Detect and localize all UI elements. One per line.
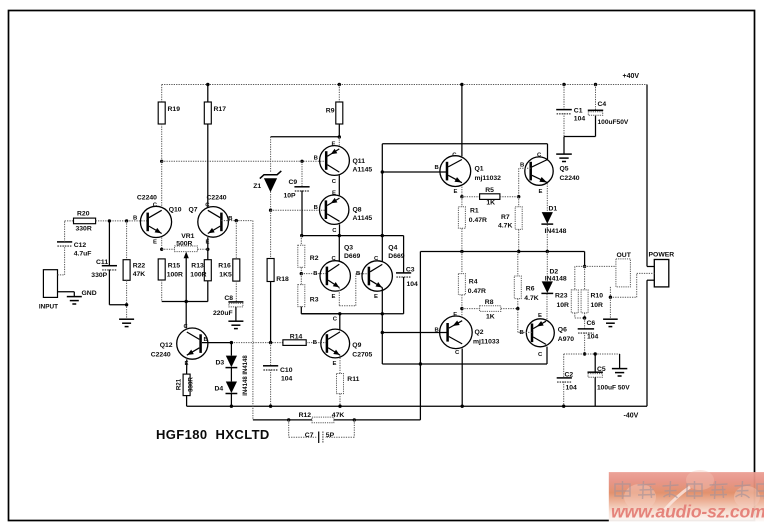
svg-text:R9: R9 — [326, 108, 335, 115]
svg-text:D669: D669 — [344, 253, 360, 260]
svg-text:C: C — [538, 352, 543, 358]
svg-text:-40V: -40V — [624, 413, 639, 420]
wire: R4 top lead — [461, 252, 463, 274]
svg-text:R1: R1 — [470, 208, 479, 215]
wire: R23 bottom jog — [575, 313, 585, 318]
wire: VAS node line — [301, 313, 403, 315]
ground (R22/C11) — [119, 319, 134, 326]
junction OUT-return/ground — [609, 296, 612, 299]
wire: out-line corner to OUT node — [584, 252, 586, 267]
svg-text:R12: R12 — [299, 412, 312, 419]
wire: D4 to rail — [230, 394, 232, 407]
junction VAS/Q4.E — [381, 312, 384, 315]
svg-text:R13: R13 — [191, 263, 204, 270]
svg-text:10P: 10P — [284, 193, 297, 200]
wire: rail to R9 — [338, 85, 340, 103]
svg-text:www.audio-sz.com: www.audio-sz.com — [611, 502, 764, 522]
wire: Q4 emitter — [381, 288, 383, 314]
capacitor C10 — [263, 366, 278, 370]
wire: R10 top lead — [584, 266, 586, 290]
wire: -40V rail — [187, 405, 647, 407]
svg-text:C: C — [455, 350, 460, 356]
junction out-line/R7-R6 — [517, 250, 520, 253]
svg-text:B: B — [314, 205, 318, 211]
wire: C2 branch — [563, 354, 565, 378]
svg-text:VR1: VR1 — [181, 233, 194, 240]
transistor Q11 (A1145 PNP) — [314, 141, 350, 185]
svg-text:C6: C6 — [587, 320, 596, 327]
wire: Q10 emitter — [161, 238, 163, 250]
svg-text:C2240: C2240 — [151, 351, 171, 358]
svg-text:1K5: 1K5 — [219, 271, 232, 278]
resistor R6 — [514, 276, 521, 299]
svg-text:R19: R19 — [168, 106, 181, 113]
svg-text:E: E — [332, 294, 336, 300]
wire: C3 to VAS node — [403, 277, 405, 314]
wire: Q3 base line — [301, 273, 327, 275]
wire: Q11 emitter — [338, 137, 340, 147]
svg-text:104: 104 — [407, 281, 419, 288]
svg-text:47K: 47K — [133, 271, 146, 278]
resistor R22 — [123, 260, 130, 281]
wire: main base line to R14 — [231, 342, 283, 344]
svg-text:C9: C9 — [289, 179, 298, 186]
resistor R17 — [204, 102, 211, 124]
capacitor C12 — [57, 242, 72, 246]
svg-text:100uF 50V: 100uF 50V — [597, 385, 630, 392]
svg-text:C2240: C2240 — [560, 175, 580, 182]
wire: Q3.E to Q4.B zigzag — [339, 274, 369, 306]
wire: C1 bottom lead — [563, 113, 565, 136]
svg-text:IN4148: IN4148 — [545, 276, 567, 283]
resistor R5 — [480, 194, 500, 200]
svg-text:100R: 100R — [167, 271, 183, 278]
wire: R15 bottom — [161, 280, 163, 302]
svg-text:104: 104 — [574, 115, 586, 122]
svg-text:C: C — [537, 153, 542, 159]
wire: Q1 emitter — [461, 187, 463, 197]
svg-text:C3: C3 — [406, 267, 415, 274]
wire: R8 left lead — [462, 308, 480, 310]
transistor Q3 (D669) — [313, 256, 350, 300]
svg-text:D4: D4 — [215, 386, 224, 393]
wire: R6 top lead — [517, 252, 519, 277]
wire: R17 to Q7 collector — [207, 124, 209, 207]
wire: R5 right lead — [500, 196, 519, 198]
junction C6/ground line — [583, 352, 586, 355]
zener Z1 — [260, 171, 282, 192]
wire: Q12 base line solid — [202, 342, 231, 344]
junction R8/R6/Q6.B — [516, 307, 519, 310]
wire: feedback from Q7 base — [252, 221, 254, 420]
wire: R13 bottom — [207, 281, 209, 302]
resistor R23 — [571, 290, 578, 313]
junction Q2.C/-40V — [461, 405, 464, 408]
svg-text:B: B — [356, 271, 360, 277]
wire: +40V feed to POWER — [647, 85, 654, 267]
junction C9 top — [300, 160, 303, 163]
wire: C5 branch — [594, 354, 596, 372]
junction tail/VR1 wiper — [185, 300, 188, 303]
junction R2/R3/Q3.B — [300, 272, 303, 275]
svg-text:C11: C11 — [96, 259, 108, 266]
svg-text:+40V: +40V — [623, 73, 640, 80]
resistor VR1 (trimmer) — [175, 246, 198, 252]
svg-text:100R: 100R — [190, 271, 206, 278]
svg-text:IN4148 IN4148: IN4148 IN4148 — [243, 355, 249, 396]
svg-text:R15: R15 — [168, 263, 181, 270]
junction Q7.B/R16 — [235, 219, 238, 222]
wire: ground stem (bypass) — [563, 137, 565, 154]
svg-text:R11: R11 — [347, 376, 359, 383]
transistor Q8 (A1145 PNP) — [314, 191, 349, 234]
junction output/feedback — [419, 362, 422, 365]
svg-text:100uF50V: 100uF50V — [598, 119, 629, 126]
wire: C2 to -40V rail — [563, 382, 565, 407]
wire: C11 bottom lead — [109, 270, 126, 305]
svg-text:47K: 47K — [332, 412, 345, 419]
svg-text:R10: R10 — [591, 293, 604, 300]
wire: Q2 collector to -40V — [461, 349, 463, 407]
wire: -40V feed from POWER — [647, 280, 654, 406]
svg-text:B: B — [435, 327, 439, 333]
transistor Q7 (C2240) — [198, 202, 233, 245]
junction Q1 base tee — [381, 170, 384, 173]
junction Q1.E/R5/R1 — [460, 195, 463, 198]
svg-text:330R: 330R — [188, 377, 195, 392]
svg-text:330R: 330R — [76, 226, 92, 233]
svg-text:C: C — [153, 202, 158, 208]
junction rail/Q1.C — [460, 83, 463, 86]
wire: R10 bottom lead — [584, 313, 586, 318]
diode D4 — [226, 382, 238, 394]
wire: C4 top lead — [595, 85, 597, 111]
wire: Q6 base jog — [518, 309, 532, 333]
wire: Q1 base line — [382, 171, 447, 173]
svg-text:B: B — [313, 340, 317, 346]
svg-text:C: C — [333, 317, 338, 323]
svg-text:R21: R21 — [176, 378, 183, 390]
junction bias/Q3.C — [338, 234, 341, 237]
wire: input pin to C12 — [58, 246, 65, 275]
junction Q12.B/D3 — [230, 341, 233, 344]
svg-text:R8: R8 — [485, 299, 494, 306]
svg-text:R18: R18 — [276, 276, 289, 283]
wire: Q12 emitter — [186, 359, 188, 374]
junction R12/C7 left — [287, 418, 290, 421]
svg-text:E: E — [333, 361, 337, 367]
wire: OUT return to POWER — [610, 273, 654, 297]
svg-text:Q12: Q12 — [160, 342, 173, 349]
svg-text:R3: R3 — [310, 297, 319, 304]
capacitor C1 — [556, 110, 572, 114]
diode D2 — [541, 281, 553, 293]
wire: Q7 base to feedback — [221, 220, 253, 222]
svg-text:mj11032: mj11032 — [475, 175, 502, 182]
svg-text:E: E — [539, 189, 543, 195]
wire: Q8.C to bias line — [339, 224, 341, 235]
junction rail/C1 — [562, 83, 565, 86]
ground (bypass caps) — [556, 154, 572, 161]
svg-text:Q7: Q7 — [189, 207, 198, 214]
svg-text:220uF: 220uF — [213, 310, 233, 317]
junction out-line/R1 — [460, 250, 463, 253]
wire: D1 to output line — [546, 225, 548, 252]
svg-text:B: B — [313, 271, 317, 277]
svg-text:R14: R14 — [290, 334, 303, 341]
wire: Q2 base line — [382, 332, 447, 334]
junction C2/-40V — [562, 405, 565, 408]
transistor Q1 (mj11032) — [435, 153, 471, 195]
svg-text:5P: 5P — [326, 432, 335, 439]
capacitor C8 — [228, 302, 243, 307]
svg-text:C: C — [205, 202, 210, 208]
wire: C8 to ground — [235, 307, 237, 321]
resistor R13 — [204, 260, 211, 281]
svg-text:OUT: OUT — [617, 252, 632, 259]
wire: R12 right link — [334, 419, 421, 421]
svg-text:C5: C5 — [597, 366, 606, 373]
wire: Z1 anode to Q8 base node — [270, 192, 272, 211]
junction rail/C4 — [594, 83, 597, 86]
svg-text:D1: D1 — [549, 206, 558, 213]
wire: R18 bottom — [270, 282, 272, 343]
capacitor C9 — [294, 187, 309, 191]
svg-text:C: C — [452, 153, 457, 159]
svg-text:500R: 500R — [176, 241, 192, 248]
wire: R3 to VAS node — [301, 307, 340, 314]
wire: bias to R2 — [300, 236, 302, 246]
resistor R14 — [283, 340, 306, 346]
svg-text:Q4: Q4 — [388, 245, 397, 252]
svg-text:C: C — [374, 256, 379, 262]
capacitor C6 — [578, 329, 594, 333]
wire: D3 top lead — [230, 343, 232, 356]
wire: R7 top lead — [518, 197, 520, 207]
capacitor C2 — [557, 378, 572, 382]
wire: C7 left drop — [289, 420, 317, 437]
wire: R2 to Q3 base — [300, 267, 302, 273]
wire: Q4.E node down to Q2 base tee — [381, 314, 383, 364]
junction R19/Q10.C/base-line — [160, 160, 163, 163]
svg-text:B: B — [133, 216, 137, 222]
svg-text:A970: A970 — [558, 336, 574, 343]
svg-text:10R: 10R — [557, 302, 570, 309]
resistor R10 — [581, 290, 588, 313]
wire: node to Q11 base — [162, 160, 327, 162]
wire: R6 bottom lead — [517, 299, 519, 309]
svg-text:C8: C8 — [224, 295, 233, 302]
resistor R9 — [336, 102, 343, 124]
junction C10/-40V — [269, 405, 272, 408]
transistor Q12 (C2240) — [177, 324, 208, 367]
junction VAS/Q9.C — [338, 312, 341, 315]
junction base/R22 — [125, 219, 128, 222]
svg-text:POWER: POWER — [649, 252, 675, 259]
svg-text:C4: C4 — [598, 101, 607, 108]
wire: R11 to rail — [339, 394, 341, 407]
wire: Z1 node to R18 — [270, 210, 272, 258]
resistor R20 — [74, 218, 96, 224]
wire: R16 top lead — [235, 221, 237, 259]
wire: output emitters link — [419, 252, 421, 420]
junction Q5.B/R5/R7 — [517, 195, 520, 198]
svg-text:0.47R: 0.47R — [469, 217, 487, 224]
svg-text:10R: 10R — [591, 302, 604, 309]
wire: C10 top lead — [270, 343, 272, 366]
diode D3 — [226, 356, 238, 368]
svg-text:Q10: Q10 — [169, 207, 182, 214]
svg-text:E: E — [332, 191, 336, 197]
wire: C7 right drop — [325, 420, 354, 437]
svg-text:Q8: Q8 — [353, 207, 362, 214]
wire: C6 bottom lead — [584, 333, 586, 355]
wire: bias node line — [302, 235, 404, 237]
junction R23/R10/C6 — [583, 316, 586, 319]
VR1 wiper arrow — [184, 252, 189, 302]
wire: R19 to node — [161, 124, 163, 161]
diode D1 — [541, 212, 553, 224]
wire: VR1 left lead — [162, 248, 175, 250]
svg-text:R22: R22 — [133, 263, 146, 270]
wire: R20 to Q10 base — [96, 220, 148, 222]
svg-text:Q1: Q1 — [475, 166, 484, 173]
junction bias/Q4.C — [381, 234, 384, 237]
wire: R22 bottom lead — [126, 280, 128, 319]
svg-text:C: C — [332, 228, 337, 234]
wire: Q7 emitter — [207, 237, 209, 260]
wire: VR1 right lead — [198, 248, 208, 250]
resistor R4 — [458, 274, 465, 295]
svg-text:Q5: Q5 — [560, 166, 569, 173]
wire: Q3.B to R3 — [300, 274, 302, 285]
resistor R3 — [298, 285, 305, 307]
junction rail/R9 — [338, 83, 341, 86]
wire: emitter output line — [420, 251, 584, 253]
junction R12/C7 right — [353, 418, 356, 421]
svg-text:4.7K: 4.7K — [524, 295, 538, 302]
junction D4/-40V — [230, 405, 233, 408]
svg-text:1K: 1K — [486, 200, 495, 207]
svg-text:0.47R: 0.47R — [468, 288, 486, 295]
resistor R19 — [158, 102, 165, 124]
ground (input) — [67, 297, 82, 304]
capacitor C7 — [319, 432, 323, 444]
wire: R8 right lead — [501, 308, 518, 310]
resistor R16 — [233, 259, 240, 281]
connector INPUT — [43, 270, 57, 298]
capacitor C5 — [588, 372, 603, 377]
svg-text:C2240: C2240 — [137, 195, 157, 202]
svg-text:C2: C2 — [565, 372, 574, 379]
capacitor C4 — [588, 110, 603, 115]
svg-text:D2: D2 — [550, 269, 559, 276]
wire: R7 bottom lead — [518, 229, 520, 251]
wire: zobel ground line — [564, 353, 620, 355]
svg-text:104: 104 — [281, 375, 293, 382]
svg-text:B: B — [314, 156, 318, 162]
ground (zobel) — [612, 369, 627, 376]
svg-text:104: 104 — [587, 334, 599, 341]
wire: R1 bottom lead — [461, 228, 463, 251]
wire: C9 bottom lead — [301, 191, 303, 236]
junction bias/C9-R2 — [300, 234, 303, 237]
wire: D2 to Q6 emitter — [546, 294, 548, 319]
svg-text:INPUT: INPUT — [39, 304, 58, 311]
junction Q10.E/VR1 — [160, 248, 163, 251]
transistor Q6 (A970 PNP) — [520, 313, 555, 358]
ground (C8) — [228, 321, 243, 328]
capacitor C3 — [396, 273, 411, 277]
svg-text:C: C — [332, 179, 337, 185]
wire: D2 top lead — [546, 252, 548, 282]
wire: tail to Q12 collector — [185, 302, 187, 329]
junction C5 branch — [594, 352, 597, 355]
junction R11/-40V — [338, 405, 341, 408]
resistor R21 — [183, 374, 190, 396]
wire: Q9 emitter — [339, 355, 341, 373]
svg-text:Q11: Q11 — [353, 158, 366, 165]
wire: output line — [382, 347, 547, 364]
junction R9/Z1-line/Q11.E — [338, 135, 341, 138]
svg-text:E: E — [332, 141, 336, 147]
connector POWER — [654, 260, 669, 287]
wire: +40V rail — [162, 84, 647, 86]
connector OUT — [616, 259, 631, 287]
transistor Q4 (D669) — [356, 256, 392, 300]
junction Q2.E/R8 — [460, 307, 463, 310]
wire: R5 left lead — [462, 196, 480, 198]
resistor R18 — [267, 259, 274, 282]
wire: Q3 collector — [338, 236, 340, 262]
capacitor C11 — [102, 266, 117, 270]
svg-text:R17: R17 — [214, 106, 227, 113]
wire: Z1 cathode drop — [270, 137, 272, 172]
svg-text:E: E — [153, 239, 157, 245]
svg-text:R5: R5 — [485, 187, 494, 194]
junction OUT node — [583, 265, 586, 268]
wire: OUT node to R23 jog — [575, 266, 585, 290]
svg-text:R7: R7 — [501, 214, 510, 221]
resistor R7 — [515, 207, 522, 230]
svg-text:HGF180 HXCLTD: HGF180 HXCLTD — [156, 427, 270, 442]
wire: Q9 collector — [339, 314, 341, 330]
wire: tail node line — [162, 301, 208, 303]
svg-text:mj11033: mj11033 — [473, 338, 500, 345]
wire: Q5 emitter to D1 — [546, 183, 548, 212]
svg-text:D3: D3 — [216, 360, 225, 367]
wire: R9 to Q11 emitter node — [338, 124, 340, 137]
svg-text:A1145: A1145 — [353, 215, 373, 222]
svg-text:Q9: Q9 — [352, 342, 361, 349]
wire: Q1 base column — [381, 144, 383, 236]
wire: Q11.C to Q8.E — [338, 175, 340, 195]
svg-text:R16: R16 — [218, 263, 231, 270]
wire: C12 to R20 — [65, 221, 74, 242]
svg-text:C2240: C2240 — [207, 195, 227, 202]
svg-text:IN4148: IN4148 — [545, 228, 567, 235]
resistor R12 — [312, 417, 334, 423]
wire: rail to R17 — [207, 85, 209, 103]
svg-text:Z1: Z1 — [253, 183, 261, 190]
wire: C1 top lead — [563, 85, 565, 110]
wire: rail to R19 — [161, 85, 163, 103]
wire: R1 top lead — [461, 197, 463, 207]
junction Q7.E/VR1 — [206, 248, 209, 251]
svg-text:R20: R20 — [77, 211, 90, 218]
svg-text:R2: R2 — [310, 255, 319, 262]
wire: C5 to -40V rail — [594, 377, 596, 406]
